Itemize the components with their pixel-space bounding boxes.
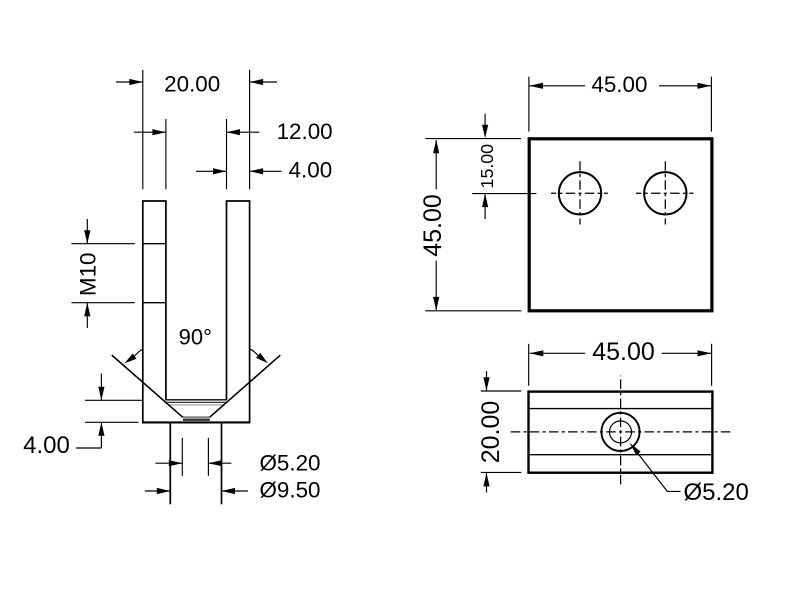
svg-text:4.00: 4.00 bbox=[289, 158, 333, 183]
svg-text:12.00: 12.00 bbox=[277, 119, 333, 144]
svg-text:15.00: 15.00 bbox=[477, 144, 497, 189]
svg-text:45.00: 45.00 bbox=[419, 194, 447, 257]
svg-text:90°: 90° bbox=[179, 325, 212, 350]
svg-text:45.00: 45.00 bbox=[591, 72, 647, 97]
svg-text:4.00: 4.00 bbox=[23, 432, 70, 459]
svg-text:Ø5.20: Ø5.20 bbox=[684, 479, 749, 506]
svg-text:45.00: 45.00 bbox=[592, 338, 655, 366]
svg-text:20.00: 20.00 bbox=[477, 401, 505, 464]
svg-text:20.00: 20.00 bbox=[164, 71, 220, 96]
svg-text:Ø5.20: Ø5.20 bbox=[260, 451, 321, 476]
svg-text:M10: M10 bbox=[75, 253, 100, 297]
svg-text:Ø9.50: Ø9.50 bbox=[260, 478, 321, 503]
